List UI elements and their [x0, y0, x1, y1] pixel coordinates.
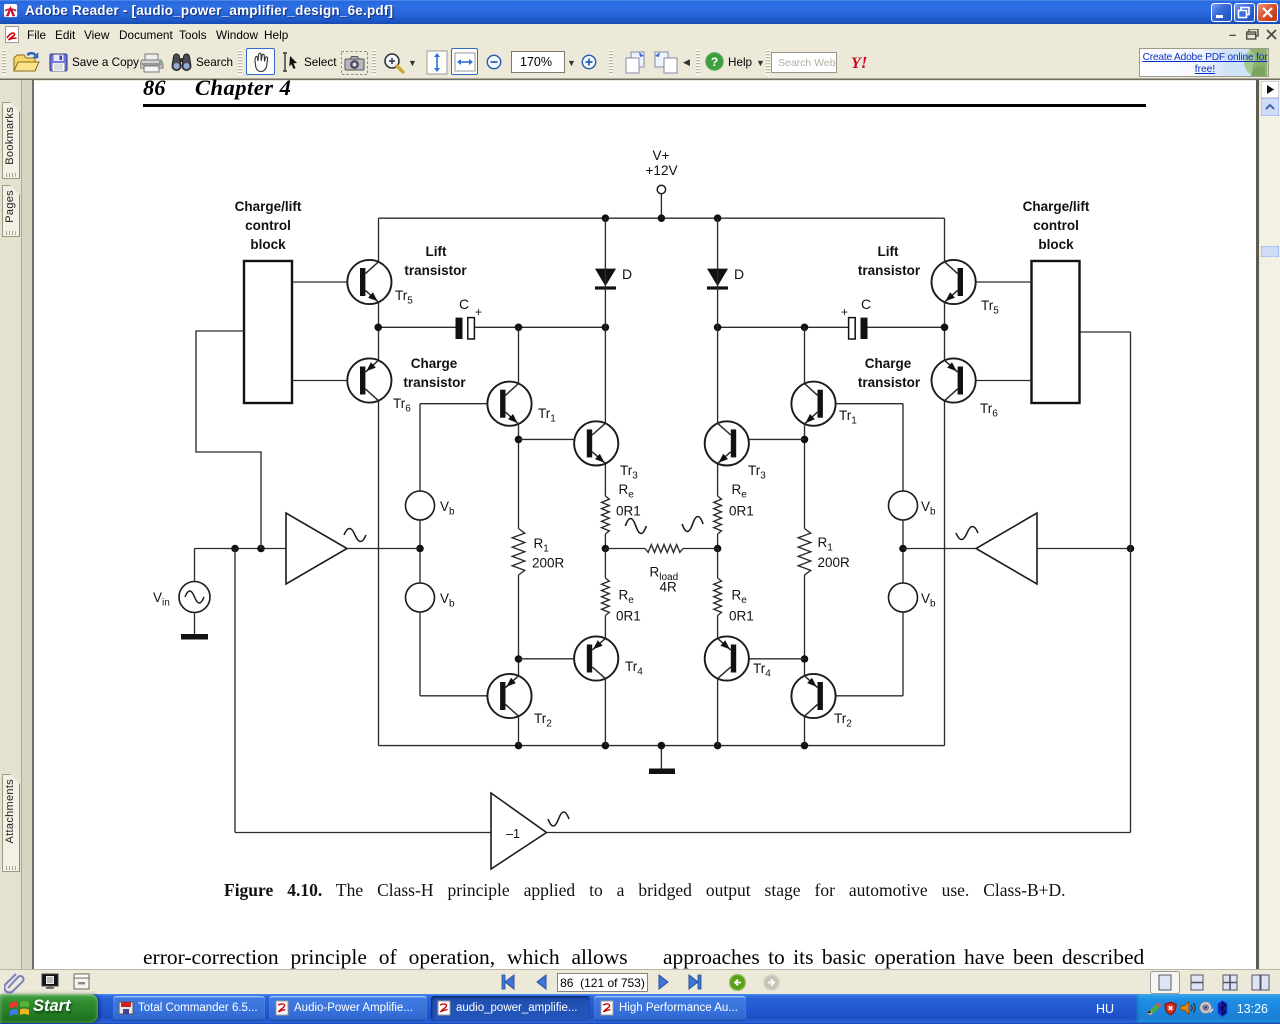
diode D left: [595, 269, 616, 287]
wire V+ terminal to top rail: [660, 194, 662, 218]
svg-text:Tr1: Tr1: [839, 408, 857, 427]
svg-text:Re: Re: [619, 588, 635, 607]
save: [49, 53, 68, 72]
junction bottom rail left driver: [515, 742, 523, 750]
transistor Tr4 right output: [705, 636, 749, 680]
transistor Tr6 right charge: [932, 358, 976, 402]
svg-text:Tr2: Tr2: [534, 711, 552, 730]
wire Rload to right node: [683, 548, 718, 550]
junction Vb chain right input: [899, 545, 907, 553]
svg-text:Vb: Vb: [921, 499, 936, 518]
svg-text:Tr4: Tr4: [625, 659, 643, 678]
resistor Re upper right: [714, 496, 722, 534]
prev/next view page icons: [619, 50, 647, 76]
svg-text:block: block: [250, 237, 286, 252]
junction bottom rail left output: [602, 742, 610, 750]
ground symbol center: [660, 746, 662, 769]
wire Tr4 base right: [736, 658, 804, 660]
power V+ terminal: [657, 185, 665, 193]
bias source Vb upper left: [406, 491, 435, 520]
junction Vb chain left input: [416, 545, 424, 553]
plus circle: [581, 54, 597, 70]
svg-text:4R: 4R: [660, 580, 678, 595]
select tool: [280, 52, 301, 72]
junction top rail / right diode: [714, 214, 722, 222]
op-amp left driver buffer: [286, 513, 347, 584]
svg-text:Re: Re: [732, 588, 748, 607]
camera: [341, 51, 368, 75]
junction right output node: [714, 545, 722, 553]
svg-text:Tr3: Tr3: [620, 463, 638, 482]
fit width pressed: [451, 48, 478, 75]
svg-text:transistor: transistor: [858, 375, 921, 390]
svg-text:Tr3: Tr3: [748, 463, 766, 482]
wire Tr3 base left: [519, 438, 587, 440]
resistor Re lower left wire: [604, 549, 606, 579]
wire right output column upper: [717, 218, 719, 496]
svg-text:–1: –1: [506, 827, 520, 841]
wire Vin to input node: [194, 549, 196, 582]
svg-text:Charge/lift: Charge/lift: [1023, 199, 1090, 214]
nav controls: [500, 974, 517, 990]
svg-text:Vb: Vb: [440, 499, 455, 518]
svg-text:control: control: [245, 218, 291, 233]
zoom magnifier: [382, 51, 406, 75]
transistor Tr2 left driver: [487, 674, 531, 718]
svg-text:D: D: [622, 266, 632, 282]
capacitor C right: [861, 318, 868, 339]
op-amp right driver buffer: [976, 513, 1037, 584]
svg-text:transistor: transistor: [403, 375, 466, 390]
print: [140, 53, 164, 73]
transistor Tr6 left charge: [347, 358, 391, 402]
junction left output node: [602, 545, 610, 553]
wire feedback down left: [234, 549, 236, 833]
wire right block to Tr5 base: [963, 281, 1032, 283]
wire left amp to Vb chain: [347, 548, 420, 550]
wire Re to right output node: [717, 534, 719, 549]
svg-text:Tr6: Tr6: [980, 401, 998, 420]
wire feedback up right: [1130, 332, 1132, 833]
wire Tr1 base to Vb chain right: [823, 403, 903, 405]
wire feedback bottom right: [547, 832, 1131, 834]
junction top rail / V+: [658, 214, 666, 222]
wire between Vb right: [902, 520, 904, 583]
transistor Tr4 left output: [574, 636, 618, 680]
hand tool pressed: [246, 48, 275, 75]
svg-text:Lift: Lift: [878, 244, 899, 259]
svg-text:Lift: Lift: [426, 244, 447, 259]
junction input control tap: [257, 545, 265, 553]
junction right emitter rail / cap: [941, 324, 949, 332]
block left charge/lift control: [244, 261, 292, 403]
svg-text:Re: Re: [619, 482, 635, 501]
capacitor C left: [456, 318, 463, 339]
svg-text:R1: R1: [534, 536, 550, 555]
svg-text:C: C: [861, 296, 871, 312]
wire left driver column: [518, 327, 520, 439]
junction top rail / left diode: [602, 214, 610, 222]
svg-text:control: control: [1033, 218, 1079, 233]
junction right R1 bottom / Tr2 collector / Tr4 base: [801, 655, 809, 663]
wire right driver column: [804, 327, 806, 439]
wire top supply rail: [379, 217, 945, 219]
wire feedback bottom left: [235, 832, 491, 834]
resistor Re upper left: [602, 496, 610, 534]
op-amp inverter -1: [491, 793, 547, 869]
bias source Vb upper right: [889, 491, 918, 520]
svg-text:Tr4: Tr4: [753, 661, 771, 680]
ground symbol Vin: [194, 613, 196, 635]
wire R1 right lower: [804, 575, 806, 659]
junction cap to right Tr1 collector: [801, 324, 809, 332]
wire Vb chain to Tr2 base right: [902, 612, 904, 696]
wire Tr1 base to Vb chain left: [420, 403, 500, 405]
resistor Re lower right: [714, 578, 722, 616]
wire right block to Tr6 base: [963, 380, 1032, 382]
svg-text:V+: V+: [653, 148, 670, 163]
transistor Tr1 left driver: [487, 382, 531, 426]
svg-text:Tr6: Tr6: [393, 396, 411, 415]
binoculars: [170, 52, 193, 73]
svg-text:Re: Re: [732, 482, 748, 501]
junction bottom rail ground: [658, 742, 666, 750]
wire left block to Tr6 base: [292, 380, 360, 382]
resistor Re lower right wire: [717, 549, 719, 579]
svg-text:+12V: +12V: [646, 163, 678, 178]
svg-text:0R1: 0R1: [616, 504, 641, 519]
block right charge/lift control: [1032, 261, 1080, 403]
bias source Vb lower right: [889, 583, 918, 612]
wire Tr3 base right: [736, 438, 804, 440]
bias source Vb lower left: [406, 583, 435, 612]
wire left node to Rload: [605, 548, 645, 550]
junction bottom rail right driver: [801, 742, 809, 750]
svg-text:C: C: [459, 296, 469, 312]
resistor Re lower left: [602, 578, 610, 616]
wire left output column upper: [604, 218, 606, 496]
svg-text:Tr5: Tr5: [395, 288, 413, 307]
wire Re lower to Tr4 right: [717, 616, 719, 746]
transistor Tr1 right driver: [791, 382, 835, 426]
svg-text:0R1: 0R1: [729, 609, 754, 624]
wire control block left path: [196, 331, 261, 549]
resistor R1 right: [798, 529, 811, 576]
wire right cap node: [718, 326, 849, 328]
svg-text:Charge: Charge: [411, 356, 458, 371]
wire right amp input: [1037, 548, 1131, 550]
wire left block to Tr5 base: [292, 281, 360, 283]
svg-text:200R: 200R: [818, 555, 851, 570]
svg-text:Vb: Vb: [921, 591, 936, 610]
fit page icon: [426, 50, 448, 75]
junction R1 bottom / Tr2 collector / Tr4 base: [515, 655, 523, 663]
svg-text:0R1: 0R1: [729, 504, 754, 519]
svg-text:+: +: [841, 305, 848, 319]
wire feedback to right block: [1080, 331, 1131, 333]
svg-text:200R: 200R: [532, 556, 565, 571]
transistor Tr5 left lift: [347, 260, 391, 304]
sine symbol right amp: [956, 527, 978, 540]
svg-text:block: block: [1038, 237, 1074, 252]
sine symbol left of Rload: [625, 519, 646, 534]
transistor Tr5 right lift: [932, 260, 976, 304]
wire right amp to Vb chain: [903, 548, 976, 550]
wire Tr4 base left: [519, 658, 587, 660]
wire left rail vertical: [378, 218, 380, 745]
wire Re to left output node: [604, 534, 606, 549]
diode D right: [707, 269, 728, 287]
junction cap to Tr1 collector: [515, 324, 523, 332]
wire R1 left lower: [518, 575, 520, 659]
junction input feedback tap: [231, 545, 239, 553]
junction Tr1 emitter / Tr3 base: [515, 436, 523, 444]
wire between Vb left: [419, 520, 421, 583]
open: [13, 52, 40, 73]
junction left emitter rail / cap: [374, 324, 382, 332]
help: [705, 52, 724, 71]
wire bottom rail: [379, 745, 945, 747]
transistor Tr2 right driver: [791, 674, 835, 718]
svg-text:+: +: [475, 305, 482, 319]
svg-text:D: D: [734, 266, 744, 282]
sine symbol inverter: [548, 812, 569, 826]
junction right feedback tap: [1127, 545, 1135, 553]
svg-text:Charge: Charge: [865, 356, 912, 371]
svg-text:transistor: transistor: [404, 263, 467, 278]
junction cap line / right diode bottom: [714, 324, 722, 332]
transistor Tr3 right output: [705, 421, 749, 465]
sine symbol left amp: [344, 529, 366, 542]
junction bottom rail right output: [714, 742, 722, 750]
minus circle: [486, 54, 502, 70]
wire Vb chain to Tr2 base left: [419, 612, 421, 696]
junction right Tr1 emitter / Tr3 base: [801, 436, 809, 444]
junction cap line / left diode bottom: [602, 324, 610, 332]
wire left cap node: [379, 326, 456, 328]
svg-text:Tr5: Tr5: [981, 298, 999, 317]
resistor R1 left: [512, 529, 525, 576]
svg-text:transistor: transistor: [858, 263, 921, 278]
transistor Tr3 left output: [574, 421, 618, 465]
wire Re lower to Tr4 left: [604, 616, 606, 746]
wire right rail vertical: [944, 218, 946, 745]
resistor Rload: [645, 545, 683, 553]
sine symbol right of Rload: [682, 517, 703, 532]
svg-text:Vb: Vb: [440, 591, 455, 610]
svg-text:Charge/lift: Charge/lift: [235, 199, 302, 214]
layout icons right: [1150, 971, 1180, 994]
svg-text:Tr1: Tr1: [538, 406, 556, 425]
source Vin: [179, 582, 210, 613]
svg-text:R1: R1: [818, 535, 834, 554]
svg-text:0R1: 0R1: [616, 609, 641, 624]
svg-text:Vin: Vin: [153, 590, 170, 609]
svg-text:Tr2: Tr2: [834, 711, 852, 730]
